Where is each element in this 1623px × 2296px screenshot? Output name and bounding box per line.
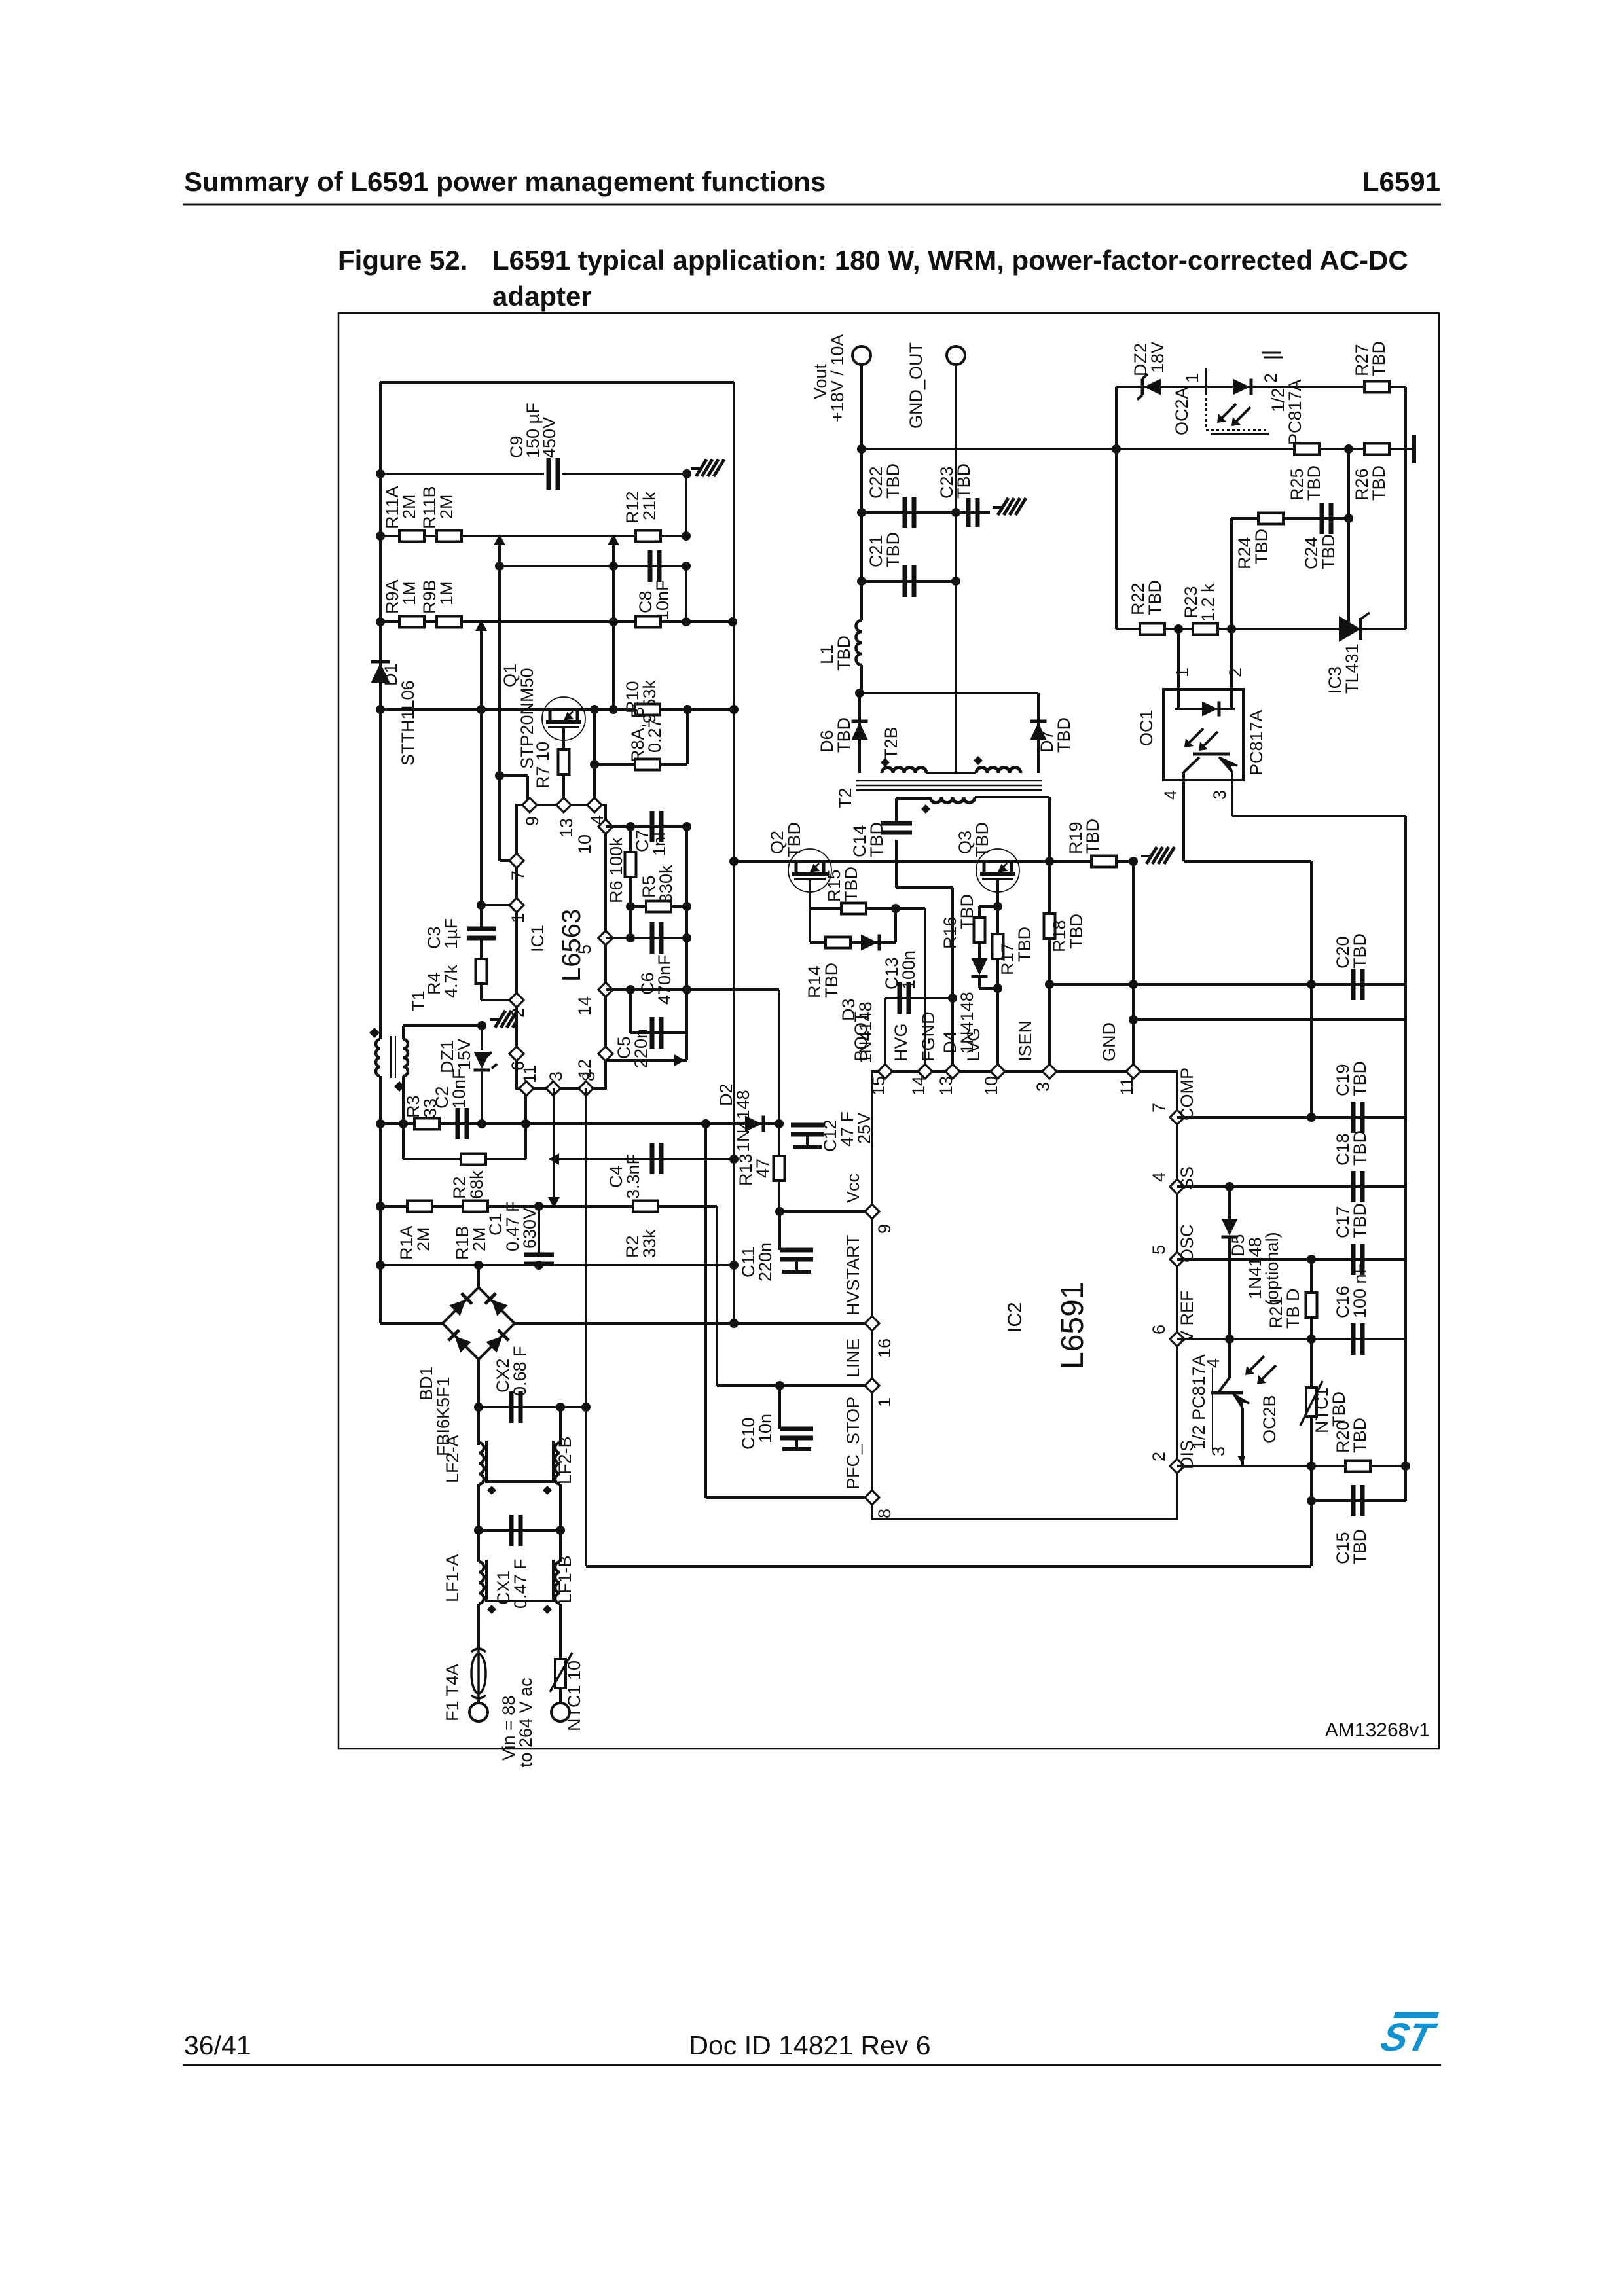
junction [474,1261,483,1270]
junction [376,469,385,478]
wire pin3 down [553,1088,555,1206]
wire R6-pin5 vert [629,906,632,938]
IC1 pin 3 [546,1071,566,1096]
wire C22 line [862,511,956,514]
IC2 pin 2 DIS [1149,1440,1197,1473]
junction [626,902,635,911]
svg-text:1M: 1M [399,581,419,605]
svg-text:TBD: TBD [1350,1529,1370,1564]
junction [376,1119,385,1128]
junction arrow [494,534,505,545]
wire Q2 gate [809,880,811,908]
wire R16-D4 [978,942,981,958]
wire PFC_STOP vert [704,1124,707,1498]
wire R21 vert2 [1310,1318,1313,1339]
capacitor C7 [652,811,661,842]
IC2 pin 7 COMP [1149,1067,1197,1124]
junction [1129,980,1138,989]
junction [1225,1335,1234,1344]
svg-text:14: 14 [909,1076,928,1096]
wire Vcc line [779,1210,872,1213]
svg-text:GND_OUT: GND_OUT [906,342,926,429]
svg-text:LINE: LINE [843,1338,863,1378]
junction [474,1526,483,1535]
svg-text:TBD: TBD [1054,717,1074,753]
svg-text:V REF: V REF [1177,1290,1197,1342]
junction [1307,1335,1316,1344]
wire C1 stem [538,1206,540,1255]
wire C19 line [1177,1116,1406,1119]
capacitor C14 [881,823,912,833]
wire pin8 down [585,1088,587,1566]
input terminal L [469,1703,488,1721]
wire C9 line left [380,473,544,475]
junction [477,1021,486,1030]
OC1 phototransistor [1184,754,1237,780]
wire R16 vert top [978,906,981,918]
wire rail B mid [559,1484,562,1530]
inductor LF1-B [555,1562,560,1604]
wire C18 line [1177,1185,1406,1188]
resistor R11B [437,531,462,542]
wire C14 up [895,798,898,823]
wire GND_OUT vert [955,365,957,773]
wire bridge bottom [477,1359,480,1407]
svg-text:16: 16 [875,1338,894,1358]
svg-text:100 nF: 100 nF [1350,1263,1370,1318]
resistor R1B [463,1201,488,1212]
svg-text:TBD: TBD [1015,927,1034,962]
svg-text:TBD: TBD [784,822,804,857]
capacitor C6 [652,922,661,954]
svg-text:10nF: 10nF [449,1068,469,1109]
resistor R16 [974,918,985,942]
capacitor C21 [905,565,914,597]
svg-text:18V: 18V [1148,342,1167,373]
junction [1307,1462,1316,1471]
svg-text:TBD: TBD [1369,341,1389,376]
junction [556,1403,565,1412]
junction [376,531,385,541]
resistor R15 [841,903,866,914]
wire LINE vert [716,1206,718,1386]
IC2 pin 8 PFC_STOP [843,1397,894,1518]
wire D4 to LVG [979,987,998,990]
IC2 pin 11 GND [1099,1022,1140,1096]
resistor R21 [1306,1293,1317,1318]
wire right rail [1404,816,1407,1466]
resistor R4 [476,959,487,984]
wire R9 line [380,620,733,623]
wire D6D7 rail [860,692,1038,694]
IC2 pin 14 HVG [891,1023,932,1096]
wire fb bottom line [1116,628,1406,630]
svg-text:100n: 100n [899,950,919,990]
wire C3-R4 [480,938,483,959]
svg-text:13: 13 [556,818,576,838]
svg-text:4: 4 [1149,1172,1169,1182]
svg-text:21k: 21k [640,492,659,520]
resistor R2 68k [461,1154,486,1165]
wire primary left jog [896,797,930,800]
resistor R8A [635,704,660,715]
LF1 core [486,1560,553,1601]
svg-text:Figure 52.: Figure 52. [338,245,467,276]
wire bridge left [380,1322,443,1325]
wire C17 line [1177,1258,1406,1261]
wire C13 line [885,997,953,999]
wire pin7 rail [498,776,501,861]
fuse F1 [471,1649,486,1698]
resistor R17 [993,934,1004,959]
svg-text:TBD: TBD [822,963,841,998]
IC2 pin 6 V REF [1149,1290,1197,1346]
junction [993,984,1002,993]
wire C4 line [554,1158,734,1160]
junction arrow [674,1054,685,1066]
svg-text:1N4148: 1N4148 [733,1090,753,1152]
junction [609,705,618,714]
capacitor C23 [968,498,977,527]
diode D7 [1030,721,1047,740]
junction [682,617,691,626]
svg-text:8: 8 [579,1071,598,1081]
LF2 core [486,1441,553,1482]
wire R10 right [685,566,687,622]
wire R5 line [630,905,687,908]
svg-text:TBD: TBD [1350,1130,1370,1166]
svg-text:47: 47 [753,1158,773,1178]
junction [775,1207,784,1216]
wire Vout vert [860,365,863,620]
svg-text:1: 1 [508,913,528,923]
IC1 pin 8 [579,1071,598,1096]
svg-text:68k: 68k [467,1170,486,1199]
inductor LF2-B [555,1443,560,1484]
junction [951,577,960,586]
svg-text:10: 10 [575,834,594,854]
IC1 pin 10 [575,819,613,854]
svg-text:5: 5 [575,944,594,954]
svg-text:10nF: 10nF [653,580,672,620]
junction [1045,857,1054,866]
junction [729,1155,739,1164]
transistor Q1 [542,697,585,740]
capacitor C3 [467,929,496,938]
junction [775,1119,784,1128]
wire OC1 p4 jog [1184,860,1311,863]
svg-text:ISEN: ISEN [1015,1020,1035,1062]
T2 phase dot primary [921,804,930,814]
capacitor C19 [1353,1102,1362,1133]
wire GND pin vert [1132,861,1135,1071]
junction [682,822,691,831]
wire pin2 jog [481,999,514,1001]
resistor R14 [826,937,850,948]
wire R9 node vert [480,622,483,929]
wire DZ1 stem [481,1026,483,1050]
junction [1129,857,1138,866]
svg-text:T2: T2 [835,787,855,808]
junction [855,689,864,698]
junction [495,562,504,571]
wire R14 branch vert [809,908,811,942]
svg-text:COMP: COMP [1177,1067,1197,1121]
svg-text:IC1: IC1 [528,925,547,952]
wire D5 vert2 [1228,1237,1231,1339]
capacitor C22 [905,497,914,528]
T2B phase dot right [974,756,983,765]
op-amp U IC2 L6591 box [872,1071,1177,1519]
svg-text:FGND: FGND [919,1012,938,1062]
svg-text:1M: 1M [437,581,456,605]
transformer T2 primary winding [930,797,975,803]
wire FGND vert [951,888,954,1071]
svg-text:4: 4 [1161,790,1180,800]
junction [477,1119,486,1128]
wire C15 up [1404,1466,1407,1501]
svg-text:11: 11 [1117,1077,1137,1096]
svg-text:R6 100k: R6 100k [606,837,626,903]
wire R8B line [594,763,687,766]
svg-text:0.27: 0.27 [645,718,665,753]
optocoupler OC2A LED [1206,368,1269,434]
inductor LF1-A [479,1562,484,1604]
wire ISEN vert1 [1048,861,1051,914]
junction [1307,1255,1316,1264]
optocoupler OC1 box [1163,689,1243,780]
transformer T2B winding left [882,768,926,774]
resistor R13 [774,1156,785,1181]
junction [590,760,599,769]
junction [682,562,691,571]
junction [626,822,635,831]
wire Vcc vert [778,990,780,1156]
IC1 pin 9 [522,798,542,826]
junction arrow [475,620,487,631]
wire ZCD line [380,1122,779,1125]
wire to pin9 [500,774,528,777]
svg-text:adapter: adapter [492,281,592,312]
wire NTC vert2 [1310,1416,1313,1466]
transformer T1 secondary winding [403,1039,408,1076]
wire OC1 p4 vert [1310,861,1313,1117]
resistor R3 [414,1119,439,1130]
wire D3 up [894,908,897,942]
svg-text:3.3nF: 3.3nF [623,1154,643,1199]
wire pin9 drop [526,776,529,805]
wire T2B mid [926,772,976,774]
wire pin7 jog [500,859,514,862]
svg-text:3: 3 [1033,1082,1053,1092]
ground (signal) [490,1018,499,1021]
wire fb top line [1116,386,1406,388]
svg-text:Doc ID 14821 Rev 6: Doc ID 14821 Rev 6 [689,2030,930,2060]
wire DIS line [1177,1465,1406,1467]
wire bridge right HVSTART line [515,1322,872,1325]
svg-text:2: 2 [1261,373,1281,383]
OC2B label rule [1212,1368,1213,1450]
svg-text:TBD: TBD [1145,580,1165,615]
junction [729,857,739,866]
svg-text:TBD: TBD [1350,1061,1370,1096]
junction [701,1119,710,1128]
svg-text:7: 7 [508,870,528,880]
wire Q1 bus [380,708,734,711]
IC1 pin 7 [508,853,528,880]
junction [609,617,618,626]
IC2 pin 5 OSC [1149,1224,1197,1266]
svg-text:OSC: OSC [1177,1224,1197,1263]
junction [521,1119,530,1128]
wire bottom bus [586,1565,1311,1568]
resistor R27 [1364,382,1389,393]
capacitor C12 [791,1125,824,1147]
IC2 pin 10 LVG [964,1028,1005,1096]
junction [477,901,486,910]
wire pin9 rail [498,536,501,776]
capacitor C20 [1353,969,1362,1000]
IC1 pin 2 [508,993,528,1018]
wire pin5 line [606,937,687,939]
junction [857,444,866,454]
wire primary right [975,796,1049,798]
svg-text:HVSTART: HVSTART [843,1234,863,1316]
wire C11 stem [778,1211,781,1250]
junction [857,577,866,586]
resistor R24 [1258,513,1283,524]
svg-text:TBD: TBD [1350,1418,1370,1453]
junction [728,617,737,626]
svg-text:Summary of L6591 power managem: Summary of L6591 power management functi… [184,166,826,197]
wire C14 jog [896,886,953,889]
svg-text:TBD: TBD [1083,819,1103,854]
wire CX1 link [479,1529,560,1532]
wire C15 line [1311,1499,1406,1502]
svg-text:11: 11 [520,1065,539,1083]
ground (R19) [1141,855,1150,857]
ST logo [1377,2012,1441,2059]
op-amp U IC1 L6563 box [517,805,606,1088]
wire to term A [477,1698,480,1703]
junction [1307,980,1316,989]
wire pin14 line [606,988,779,991]
wire C8 line [500,565,686,567]
wire ref vert [1347,449,1350,622]
junction [682,469,691,478]
figure frame [338,313,1439,1749]
svg-text:GND: GND [1099,1022,1119,1062]
transformer T2 core [856,781,1042,790]
wire L1 to rail [860,665,863,693]
IC1 pin 12 [575,1047,613,1079]
svg-text:+18V / 10A: +18V / 10A [828,334,847,422]
svg-text:3: 3 [1209,1446,1228,1456]
capacitor C1 [524,1255,554,1264]
resistor R11A [399,531,424,542]
svg-text:AM13268v1: AM13268v1 [1325,1719,1430,1741]
terminal Vout [852,346,871,365]
junction [477,705,486,714]
IC1 pin 6 [508,1047,528,1071]
svg-text:1: 1 [1182,373,1202,383]
junction arrow [548,1197,560,1208]
transistor Q2 [788,849,831,892]
svg-text:0.68 F: 0.68 F [510,1346,530,1396]
svg-text:L6591: L6591 [1055,1282,1090,1369]
svg-text:TBD: TBD [957,894,977,929]
junction [474,1403,483,1412]
wire fb left vert [1115,387,1118,629]
wire HVG vert [924,908,926,1071]
svg-text:3: 3 [546,1071,566,1081]
inductor LF2-A [479,1443,484,1484]
wire rail B mid2 [559,1530,562,1562]
wire pin1 jog [481,904,514,906]
ground (C23) [993,506,1002,509]
wire OC1 p3 drop [1231,780,1233,816]
capacitor C11 [780,1250,813,1272]
wire rail B low [559,1604,562,1649]
wire C1 bus [380,1264,734,1266]
svg-text:TBD: TBD [954,463,974,499]
svg-text:TL431: TL431 [1342,643,1362,694]
junction [626,985,635,994]
IC2 pin 9 Vcc [843,1174,894,1234]
resistor R23 [1193,624,1218,635]
svg-text:TB D: TB D [1283,1288,1303,1329]
svg-text:2: 2 [1226,668,1245,677]
diode D5 [1222,1219,1238,1237]
svg-text:2M: 2M [399,494,419,519]
junction [682,531,691,541]
junction [1227,624,1236,634]
resistor R10 [636,617,661,628]
transistor Q3 [976,849,1019,892]
junction [1307,1113,1316,1122]
wire R6 vert [629,827,632,906]
junction [948,994,957,1003]
resistor R19 [1091,856,1116,867]
wire primary right down [1048,797,1051,861]
wire ladder mid rail [612,536,615,709]
wire NTC vert1 [1310,1339,1313,1388]
junction [729,1319,739,1328]
wire T1 sec top to DZ1 [403,1024,482,1027]
wire to term B [559,1698,562,1703]
wire rail A mid [477,1484,480,1530]
svg-text:9: 9 [875,1224,894,1234]
LF2 phase dot A [487,1486,496,1495]
svg-text:STTH1L06: STTH1L06 [398,680,418,766]
wire DZ1 to line [481,1071,483,1124]
junction [729,1261,739,1270]
terminal GND_OUT [947,346,965,365]
svg-text:R7 10: R7 10 [533,742,553,789]
junction [1401,1462,1410,1471]
resistor R12 [636,531,661,542]
wire D5 vert1 [1228,1187,1231,1219]
svg-text:F1 T4A: F1 T4A [443,1664,462,1721]
wire OC2B coll [1228,1339,1231,1378]
junction [993,902,1002,911]
wire LINE to pin [717,1384,872,1387]
svg-text:L6591 typical application: 180: L6591 typical application: 180 W, WRM, p… [492,245,1408,276]
junction [1112,444,1121,454]
junction [609,562,618,571]
svg-text:1: 1 [875,1397,894,1407]
junction [1344,444,1353,454]
